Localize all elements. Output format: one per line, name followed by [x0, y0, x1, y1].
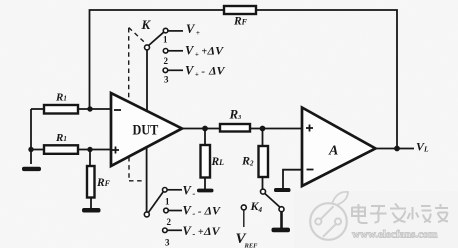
svg-text:2: 2	[167, 217, 172, 227]
svg-text:RL: RL	[211, 156, 225, 168]
svg-text:1: 1	[165, 197, 170, 207]
svg-text:3: 3	[165, 238, 170, 248]
svg-text:V++ΔV: V++ΔV	[185, 44, 224, 59]
svg-text:K: K	[141, 17, 152, 32]
svg-text:3: 3	[164, 75, 169, 85]
svg-text:DUT: DUT	[133, 122, 159, 138]
svg-text:RF: RF	[233, 16, 248, 28]
svg-text:2: 2	[164, 56, 169, 66]
svg-text:RF: RF	[96, 177, 111, 189]
svg-text:www.elecfans.com: www.elecfans.com	[352, 229, 438, 241]
svg-text:1: 1	[163, 35, 168, 45]
svg-text:V-+ΔV: V-+ΔV	[183, 224, 221, 239]
svg-text:A: A	[328, 143, 338, 158]
